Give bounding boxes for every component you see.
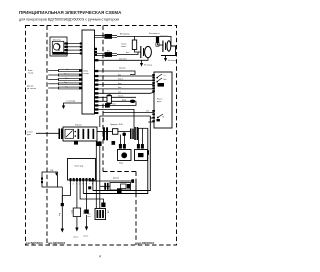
sensor B1 body	[110, 183, 131, 191]
connector bars 2	[130, 129, 134, 140]
svg-text:Бел.: Бел.	[126, 52, 130, 54]
wire bus X1 to panel	[94, 58, 154, 127]
control unit A1	[58, 159, 95, 233]
svg-text:генер.: генер.	[28, 73, 34, 75]
svg-text:Катушка: Катушка	[161, 35, 169, 37]
svg-text:Предохр. 30 А: Предохр. 30 А	[110, 123, 123, 126]
wire gen 4	[59, 82, 81, 84]
wire to starter ground node	[62, 101, 82, 109]
svg-text:двиг.: двиг.	[157, 101, 162, 103]
value labels: wire colours	[64, 69, 70, 89]
magneto unit G1 (engine flywheel magneto)	[50, 37, 83, 56]
svg-text:Жел.: Жел.	[65, 78, 70, 80]
wire stub to resistor R1	[134, 36, 136, 40]
S1 lower contact	[157, 117, 159, 119]
wire gen 3	[59, 78, 81, 80]
svg-text:масса: масса	[74, 237, 79, 239]
svg-text:Бел.: Бел.	[118, 87, 122, 89]
svg-text:Красн.: Красн.	[64, 73, 70, 75]
wire into B1	[100, 185, 110, 187]
wire E2 to ground	[161, 46, 176, 56]
tap pin below F1	[112, 141, 116, 145]
svg-text:Чер./кр.: Чер./кр.	[119, 67, 126, 69]
generator stator wires into X1	[27, 69, 82, 90]
wires magneto G1 to connector X1	[66, 44, 82, 54]
svg-text:Инд.: Инд.	[119, 163, 124, 165]
svg-text:Выкл.: Выкл.	[157, 99, 163, 101]
S1 contacts	[157, 74, 162, 82]
wire gen 2	[59, 73, 81, 75]
value labels: bus wire colours	[113, 74, 151, 112]
svg-text:Зел.: Зел.	[146, 111, 150, 113]
HV and plug wires from X1	[94, 34, 130, 57]
svg-text:к стартеру: к стартеру	[66, 101, 75, 103]
wire plug white lead	[95, 54, 118, 56]
S1 contact block	[158, 83, 165, 87]
svg-text:масса: масса	[84, 236, 89, 238]
ground arrow (starter)	[62, 106, 65, 110]
lighting coil L1 and rectifier	[80, 116, 108, 220]
wire A1 pin1 to ground arrow	[62, 181, 70, 203]
svg-text:На массу: На массу	[144, 64, 152, 66]
magneto G1 winding	[53, 43, 60, 50]
wires X6 down to coil L1	[96, 116, 102, 209]
svg-text:Колпачок св.: Колпачок св.	[149, 33, 161, 35]
wire HV lead	[95, 36, 118, 38]
svg-text:На массу: На массу	[168, 60, 176, 62]
indicator lamp H1 and relay K1	[118, 128, 148, 164]
wire vertical from y116 run	[148, 116, 150, 191]
connector brackets on stator leads	[58, 69, 60, 89]
diode VD1 on bus	[130, 100, 136, 103]
magneto G1 core bar	[52, 52, 66, 54]
pins A1 bottom 1-8	[70, 178, 94, 181]
svg-text:Зел.: Зел.	[64, 82, 68, 84]
connector block X1 (main harness)	[82, 30, 95, 114]
pins H1/K1 top	[119, 144, 144, 149]
wire E1 to ground	[142, 58, 149, 64]
bottom bus wires	[83, 188, 148, 193]
svg-text:2: 2	[73, 184, 74, 186]
connector X3 (white lead)	[105, 52, 113, 57]
svg-text:Гол.: Гол.	[118, 92, 122, 94]
connector X2 (HV lead)	[105, 34, 113, 39]
engine switch S1	[148, 72, 172, 128]
svg-text:Бел.: Бел.	[113, 104, 117, 106]
svg-text:ПРИНЦИПИАЛЬНАЯ ЭЛЕКТРИЧЕСКАЯ С: ПРИНЦИПИАЛЬНАЯ ЭЛЕКТРИЧЕСКАЯ СХЕМА	[19, 10, 122, 15]
svg-text:4: 4	[99, 255, 101, 259]
ignition circuit	[117, 33, 176, 67]
node junction on fuse wire	[122, 132, 126, 136]
pins X1 left (stator)	[79, 69, 82, 89]
svg-text:зажиг.: зажиг.	[121, 46, 127, 48]
dashed partition x103	[102, 26, 104, 172]
connector X4 on white wire	[105, 103, 110, 107]
pins X1 right	[94, 59, 98, 114]
wire right of comp to vertical	[138, 127, 148, 129]
svg-text:для ВДУ6000Э: для ВДУ6000Э	[48, 242, 65, 245]
dashed partition x47	[46, 26, 48, 246]
wire ignition main run	[117, 36, 171, 42]
dashed partition step y171.5	[103, 171, 136, 173]
svg-text:осв.: осв.	[88, 216, 92, 218]
wires A1 pins to bottom bus	[92, 181, 94, 190]
indicator lamp H1	[118, 150, 132, 161]
dashed partition x136 bottom	[135, 172, 137, 246]
pins X1 right top	[94, 48, 97, 56]
pins X1 left (from G1)	[80, 42, 83, 54]
value labels: A1 pin numbers	[70, 184, 93, 186]
wire gen 5	[59, 86, 81, 88]
svg-text:Ст: Ст	[164, 75, 166, 77]
tap pin below X6	[74, 141, 78, 145]
magneto G1 inner frame	[52, 41, 64, 52]
svg-text:двиг.: двиг.	[27, 134, 32, 136]
sensor Z1 on A1 pin3 wire + ground arrow	[76, 181, 78, 209]
svg-text:Кра.: Кра.	[118, 74, 122, 76]
svg-text:Блок упр.: Блок упр.	[75, 166, 85, 168]
svg-text:7: 7	[89, 184, 90, 186]
svg-text:генер.: генер.	[83, 73, 89, 75]
pins G1 output	[64, 42, 68, 54]
svg-text:Кор./б.: Кор./б.	[118, 79, 124, 81]
wire to rectifier VD2	[80, 181, 103, 202]
variant captions	[26, 242, 155, 245]
wires into S1 lower pins	[148, 118, 154, 122]
relay K1	[135, 150, 148, 161]
pins S1 left	[152, 74, 155, 122]
switch S2 inside X6	[65, 129, 74, 138]
thick comp	[134, 127, 136, 140]
svg-text:Разъём: Разъём	[75, 124, 82, 126]
svg-text:Кор.: Кор.	[58, 213, 60, 217]
spark plug E2	[163, 41, 171, 53]
wires panel verticals to bottom bus	[145, 116, 150, 194]
connector strip X6	[63, 127, 97, 141]
jumper component U1 bridging wires	[107, 96, 111, 104]
svg-text:ур. масла: ур. масла	[27, 88, 37, 90]
svg-text:ВВ провод: ВВ провод	[120, 34, 130, 36]
stop switch / connector chain	[27, 123, 148, 145]
svg-text:Чер.: Чер.	[65, 86, 69, 88]
magneto G1 body	[50, 37, 67, 56]
svg-text:для ВДУ5000Э: для ВДУ5000Э	[26, 242, 43, 245]
oil level sensor B1 assembly	[90, 177, 136, 196]
resistor R1 (suppressor)	[132, 40, 136, 50]
svg-text:Вкл: Вкл	[164, 79, 167, 81]
svg-text:Датч.: Датч.	[71, 210, 73, 215]
svg-text:Бел.: Бел.	[66, 69, 70, 71]
wire over sensor to partition node	[90, 180, 133, 182]
wire gen 1	[59, 69, 81, 71]
ignition coil T1 (on wire)	[156, 37, 159, 43]
svg-text:Чер.: Чер.	[118, 83, 122, 85]
svg-text:Реле: Реле	[82, 210, 84, 214]
svg-text:Зел./б.: Зел./б.	[118, 96, 124, 98]
spark plug E1	[141, 46, 152, 58]
svg-text:для ВДУ6000Э: для ВДУ6000Э	[137, 242, 154, 245]
connector X7 bars	[103, 127, 108, 140]
wire vertical from fuse chain	[145, 128, 148, 193]
wires bus to switch S1	[97, 76, 154, 128]
connector X5 bars	[59, 129, 63, 140]
svg-text:Датчик: Датчик	[113, 177, 119, 179]
X6 contact bars	[78, 129, 95, 139]
connector block on bottom bus	[117, 188, 122, 193]
svg-text:Бел.: Бел.	[107, 50, 111, 52]
svg-text:для генераторов ВДУ5000Э/ВДУ60: для генераторов ВДУ5000Э/ВДУ6000Э с ручн…	[19, 18, 119, 22]
thin stator leads from partition	[48, 71, 58, 89]
dashed enclosure outer	[26, 26, 177, 246]
optional 12V loop box	[41, 170, 62, 203]
wire X7 to fuse F1	[97, 131, 113, 133]
relay K2 on A1 pin5 wire + ground arrow	[86, 181, 88, 211]
labels: generator block / oil sensor	[27, 70, 37, 90]
